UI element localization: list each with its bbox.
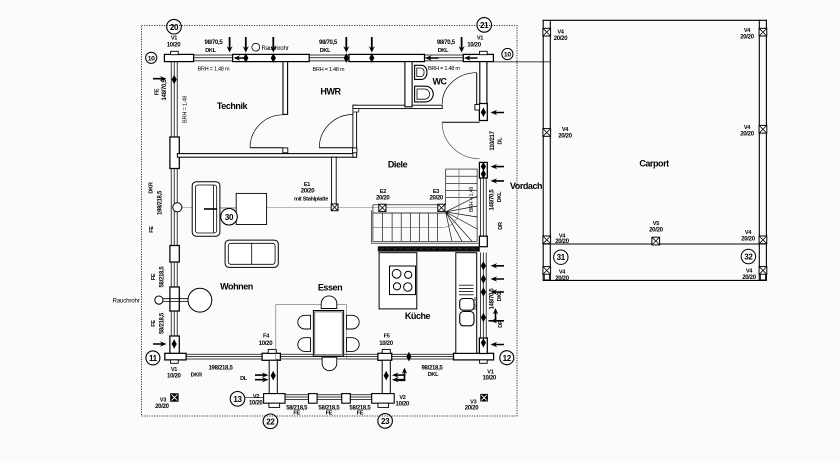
svg-text:DR: DR [498, 222, 504, 230]
svg-text:11: 11 [149, 354, 158, 363]
V3 box left (black) [170, 393, 178, 401]
svg-text:FE: FE [326, 411, 333, 417]
door Technik: leaf [250, 147, 283, 149]
wall HWR|Diele vertical [353, 105, 357, 157]
carport post ML [543, 129, 551, 137]
door Technik: jamb block [283, 148, 288, 153]
svg-text:Technik: Technik [217, 101, 249, 111]
V2 cap left below [269, 403, 280, 407]
carport left edge double [542, 20, 544, 281]
V2 block left [264, 394, 285, 404]
chair right upper [347, 315, 360, 329]
circle 20 [167, 19, 182, 34]
label Rauchrohr top [252, 43, 260, 51]
svg-text:V1: V1 [171, 36, 177, 42]
door WC: leaf [476, 73, 478, 105]
entrance door: arc [442, 122, 480, 159]
svg-text:mit Stahlplatte: mit Stahlplatte [294, 197, 328, 203]
kitchen counter right strip [456, 253, 477, 354]
door HWR: arc [319, 115, 353, 148]
carport strip cap left [544, 274, 549, 280]
svg-text:V1: V1 [477, 35, 483, 41]
carport bottom line [543, 279, 767, 281]
node circle on left wall axis30 [173, 203, 182, 212]
svg-text:30: 30 [225, 213, 234, 222]
V1 cap top-right [480, 51, 488, 54]
door HWR: jamb block [353, 148, 357, 153]
left wall diamond bottom + arrow [172, 339, 177, 348]
window w2 98/70,5 [309, 55, 349, 61]
circle 30 [221, 208, 238, 225]
wall Technik|HWR [283, 62, 288, 115]
right wall post block with diamond [479, 104, 487, 121]
svg-text:V5: V5 [653, 221, 659, 227]
rail post 1 [309, 394, 318, 404]
svg-text:20/20: 20/20 [741, 236, 755, 242]
bottom wall F4 block [262, 353, 280, 360]
window w3 98/70,5 [425, 55, 464, 61]
top wall diamonds [243, 53, 248, 62]
right wall arrows outside [491, 110, 505, 115]
door WC: jamb block [475, 105, 480, 111]
carport top edge [543, 19, 767, 21]
svg-text:DL: DL [498, 137, 504, 145]
svg-text:10/20: 10/20 [396, 401, 410, 407]
walkline with arc [373, 169, 459, 228]
svg-text:BRH = 1.48 m: BRH = 1.48 m [198, 66, 230, 72]
svg-text:Diele: Diele [388, 160, 408, 170]
svg-text:DKL: DKL [428, 372, 439, 378]
svg-text:58/218,5: 58/218,5 [160, 266, 166, 288]
svg-text:Rauchrohr: Rauchrohr [113, 297, 140, 304]
svg-text:V2: V2 [253, 394, 259, 400]
top wall left-arrowheads [234, 55, 248, 60]
sofa 2 horizontal [225, 240, 278, 267]
svg-text:FE: FE [155, 88, 161, 95]
svg-text:22: 22 [266, 417, 275, 426]
treads lower flight [381, 213, 383, 241]
F4 cap above [268, 349, 276, 353]
step rect at wall junction [353, 109, 359, 112]
V2 cap right below [378, 403, 389, 407]
svg-text:20/20: 20/20 [376, 196, 390, 202]
left wall block chimney lower [170, 287, 179, 311]
left wall block chimney upper [170, 137, 179, 169]
svg-text:13: 13 [233, 395, 242, 404]
dashed property border [142, 26, 518, 417]
wall E1 stub Wohnen|Essen [332, 157, 337, 204]
svg-text:FE: FE [149, 226, 155, 233]
axis tick over sofa [204, 208, 217, 210]
svg-text:21: 21 [480, 21, 489, 30]
svg-text:BRH = 1,48: BRH = 1,48 [469, 187, 475, 212]
post E2 [379, 204, 386, 211]
svg-text:DKR: DKR [149, 182, 155, 193]
svg-text:98/70,5: 98/70,5 [205, 40, 224, 46]
svg-text:198/218,5: 198/218,5 [158, 190, 164, 215]
svg-text:BRH = 1.48 m: BRH = 1.48 m [313, 67, 345, 73]
door WC: arc [442, 73, 477, 105]
circle 10 left [146, 52, 157, 63]
svg-text:DKL: DKL [320, 48, 331, 54]
winder fan lines [446, 196, 477, 212]
chair right lower [347, 338, 360, 352]
circle 21 [477, 18, 492, 33]
coffee table square [236, 193, 266, 224]
wc toilet [415, 86, 434, 102]
svg-text:HWR: HWR [320, 87, 341, 97]
post E1 [331, 204, 338, 211]
svg-text:10/20: 10/20 [167, 374, 181, 380]
svg-text:32: 32 [744, 253, 753, 262]
rauchrohr connection double line [163, 298, 188, 300]
top wall block D corner [463, 54, 493, 61]
carport mid bottom line [543, 243, 767, 245]
carport post TL [543, 28, 551, 36]
svg-text:V3: V3 [160, 398, 166, 404]
V3 box right (black) [480, 394, 488, 402]
svg-text:FE: FE [357, 411, 364, 417]
right wall diamonds [481, 108, 486, 117]
svg-text:BRH = 1.48 m: BRH = 1.48 m [428, 66, 460, 72]
svg-text:110/217: 110/217 [490, 130, 496, 150]
chair left lower [298, 338, 311, 352]
axis line through 30/E1/E2/E3 [179, 207, 443, 209]
chair bottom [322, 357, 337, 371]
svg-text:V3: V3 [470, 399, 476, 405]
svg-text:10/20: 10/20 [467, 43, 481, 49]
terrace left post column [269, 360, 277, 393]
svg-text:DKL: DKL [497, 191, 503, 202]
svg-text:198/218,5: 198/218,5 [209, 365, 234, 371]
door HWR: leaf [319, 147, 353, 149]
bottom wall block corner right [454, 353, 494, 360]
stair offset outline bottom [371, 242, 479, 244]
svg-text:BRH = 1.48: BRH = 1.48 [183, 96, 189, 123]
svg-text:58/218,5: 58/218,5 [160, 312, 166, 334]
svg-text:20: 20 [170, 23, 179, 32]
svg-text:DKL: DKL [438, 48, 449, 54]
svg-text:20/20: 20/20 [554, 36, 568, 42]
door Technik: arc [250, 115, 283, 148]
bottom wall block corner left [165, 353, 186, 360]
wc sink [415, 65, 427, 79]
circle 31 [554, 250, 568, 264]
terrace rail lines [285, 395, 372, 400]
stove circle [188, 288, 212, 312]
svg-text:DKR: DKR [191, 373, 202, 379]
stair enclosure outline [373, 204, 446, 206]
wall below WC horizontal [353, 105, 442, 108]
kitchen black wall bar [378, 246, 480, 251]
circle 10 right [502, 48, 513, 59]
svg-text:20/20: 20/20 [742, 275, 756, 281]
sink bowl 2 [460, 312, 474, 326]
svg-text:WC: WC [432, 76, 447, 86]
axis line y62 house to carport [493, 61, 550, 63]
carport post V5 bottom mid [652, 237, 660, 245]
right wall block above kitchen [479, 236, 487, 247]
svg-text:20/20: 20/20 [155, 404, 169, 410]
svg-text:20/20: 20/20 [429, 196, 443, 202]
svg-text:FE: FE [293, 411, 300, 417]
svg-text:Vordach: Vordach [510, 181, 542, 191]
left wall block lower post [170, 336, 179, 354]
wall WC partition [405, 62, 412, 107]
svg-text:20/20: 20/20 [740, 131, 754, 137]
svg-text:148/70,5: 148/70,5 [490, 189, 496, 211]
svg-text:20/20: 20/20 [465, 406, 479, 412]
rail post 2 [342, 394, 351, 404]
svg-text:Carport: Carport [639, 159, 669, 169]
V2 block right [372, 394, 395, 404]
svg-text:DKL: DKL [205, 48, 216, 54]
terrace right post column [382, 360, 390, 393]
svg-text:20/20: 20/20 [555, 276, 569, 282]
circle 11 [146, 351, 160, 365]
V1 cap bottom-left [171, 360, 179, 363]
carport strip post SR [759, 267, 767, 275]
svg-text:10/20: 10/20 [249, 400, 263, 406]
carport post MR [759, 125, 767, 133]
carport strip post SL [543, 267, 551, 275]
big horizontal wall Technik/Wohnen [177, 154, 356, 158]
kitchen counter left [379, 253, 417, 309]
svg-text:F5: F5 [384, 334, 390, 340]
svg-text:10/20: 10/20 [379, 341, 393, 347]
carport post BR [759, 236, 767, 244]
top wall block C [349, 54, 425, 61]
svg-text:10: 10 [504, 52, 511, 59]
svg-text:98/70,5: 98/70,5 [319, 40, 338, 46]
svg-text:20/20: 20/20 [555, 239, 569, 245]
entrance door: leaf [442, 121, 480, 123]
carport strip cap right [761, 274, 766, 280]
svg-text:10/20: 10/20 [259, 341, 273, 347]
svg-text:Essen: Essen [318, 282, 342, 292]
svg-text:148/70,5: 148/70,5 [162, 79, 168, 101]
V1 cap top-left [171, 51, 179, 54]
top wall block A corner [164, 54, 193, 61]
rauchrohr small circle [155, 296, 163, 304]
svg-text:20/20: 20/20 [301, 189, 315, 195]
svg-text:98/70,5: 98/70,5 [437, 40, 456, 46]
right wall kitchen window [481, 253, 487, 339]
chair left upper [298, 315, 311, 329]
svg-text:Wohnen: Wohnen [220, 282, 253, 292]
arrows right terrace [392, 372, 406, 377]
chair top [321, 296, 337, 309]
cooktop [390, 266, 416, 295]
treads upper flight [446, 175, 477, 177]
svg-text:20/20: 20/20 [649, 228, 663, 234]
bottom wall F5 block [378, 353, 392, 360]
bottom window lines [186, 354, 453, 359]
right wall solid top segment [480, 62, 487, 104]
right wall window 148/70,5 [481, 178, 487, 236]
top wall down arrows [227, 37, 233, 53]
svg-text:Küche: Küche [405, 311, 431, 321]
sofa 1 vertical [192, 182, 220, 237]
svg-text:10/20: 10/20 [482, 375, 496, 381]
svg-text:31: 31 [557, 253, 566, 262]
circle 12 [500, 351, 514, 365]
svg-text:12: 12 [503, 354, 512, 363]
svg-text:23: 23 [381, 417, 390, 426]
F5 cap above [382, 349, 390, 353]
left wall window glazing lines [171, 62, 177, 354]
post E3 [438, 204, 445, 211]
rug [276, 305, 347, 360]
terrace post diamonds [271, 371, 276, 380]
bottom wall diamond near F5 [406, 352, 411, 361]
circle13 rail tick [245, 396, 263, 398]
circle 32 [741, 249, 755, 263]
circle 23 [378, 414, 393, 429]
svg-text:V1: V1 [171, 367, 177, 373]
right wall block lower [479, 338, 487, 354]
svg-text:20/20: 20/20 [558, 133, 572, 139]
svg-text:E3: E3 [433, 189, 439, 195]
V1 cap bottom-right [480, 360, 488, 363]
svg-text:FE: FE [151, 273, 157, 280]
window w1 98/70,5 [194, 55, 233, 61]
svg-text:98/218,5: 98/218,5 [422, 365, 444, 371]
svg-text:10: 10 [148, 55, 155, 62]
carport right edge double [758, 20, 760, 281]
carport post TR [759, 28, 767, 36]
svg-text:FE: FE [151, 320, 157, 327]
circle 22 [263, 414, 278, 429]
svg-text:60x1,40: 60x1,40 [473, 296, 478, 310]
svg-text:E1: E1 [304, 182, 310, 188]
sink bowl 1 [460, 299, 474, 311]
top wall block B [233, 54, 310, 61]
svg-text:20/20: 20/20 [740, 34, 754, 40]
right wall post block below door [479, 162, 487, 178]
circle 13 [230, 392, 245, 407]
dining table [313, 311, 343, 357]
svg-text:E2: E2 [380, 189, 386, 195]
carport post BL [543, 236, 551, 244]
svg-text:V2: V2 [399, 395, 405, 401]
svg-text:DL: DL [240, 376, 248, 382]
left wall block mid [170, 246, 179, 263]
stair lower flight top edge [373, 212, 446, 214]
left wall diamond top + arrow [172, 75, 177, 84]
svg-text:10/20: 10/20 [167, 43, 181, 49]
sink drainer lines [459, 285, 474, 295]
